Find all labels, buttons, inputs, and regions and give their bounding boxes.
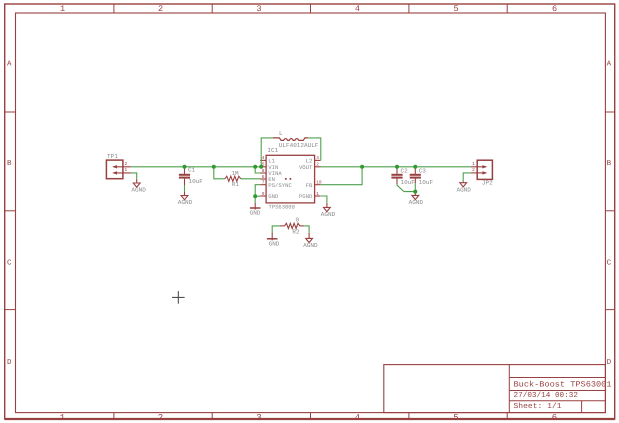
- svg-text:Buck-Boost TPS63001: Buck-Boost TPS63001: [514, 380, 612, 389]
- svg-text:10uF: 10uF: [419, 179, 434, 186]
- svg-text:C: C: [7, 258, 12, 267]
- svg-text:1: 1: [316, 192, 319, 197]
- svg-text:C1: C1: [188, 166, 196, 173]
- svg-text:R2: R2: [292, 228, 300, 235]
- svg-text:2: 2: [124, 161, 127, 167]
- svg-text:L: L: [279, 130, 283, 137]
- svg-text:3: 3: [256, 4, 261, 14]
- svg-text:C: C: [607, 258, 612, 267]
- svg-text:A: A: [7, 60, 12, 68]
- svg-text:4: 4: [262, 156, 265, 161]
- svg-text:1M: 1M: [231, 170, 239, 177]
- svg-text:6: 6: [552, 4, 557, 14]
- svg-text:R1: R1: [232, 181, 240, 188]
- svg-text:2: 2: [316, 162, 319, 168]
- svg-text:ULF4012AULF: ULF4012AULF: [279, 142, 319, 149]
- svg-text:1: 1: [60, 4, 65, 14]
- svg-text:4: 4: [355, 413, 360, 423]
- svg-text:AGND: AGND: [303, 242, 318, 249]
- svg-text:5: 5: [453, 413, 458, 423]
- svg-text:1: 1: [124, 168, 127, 173]
- svg-text:B: B: [607, 160, 612, 168]
- svg-text:9: 9: [262, 191, 265, 197]
- svg-text:AGND: AGND: [321, 211, 336, 218]
- svg-text:AGND: AGND: [178, 199, 193, 206]
- svg-text:D: D: [607, 359, 612, 367]
- svg-text:GND: GND: [250, 210, 261, 217]
- svg-text:0: 0: [295, 216, 299, 223]
- svg-text:GND: GND: [268, 193, 279, 200]
- svg-text:IC1: IC1: [267, 147, 278, 154]
- svg-text:C2: C2: [401, 167, 409, 174]
- svg-text:C3: C3: [419, 167, 427, 174]
- svg-text:TPS63000: TPS63000: [269, 203, 295, 210]
- svg-text:8: 8: [262, 168, 265, 174]
- svg-text:AGND: AGND: [131, 187, 146, 194]
- svg-text:10uF: 10uF: [189, 178, 204, 185]
- svg-text:PS/SYNC: PS/SYNC: [268, 182, 292, 189]
- svg-text:D: D: [7, 359, 12, 367]
- svg-text:VOUT: VOUT: [299, 164, 313, 171]
- svg-text:B: B: [7, 160, 12, 168]
- svg-text:27/03/14 00:32: 27/03/14 00:32: [514, 391, 579, 400]
- svg-text:FB: FB: [306, 182, 313, 189]
- svg-text:1: 1: [472, 162, 475, 167]
- svg-text:PGND: PGND: [299, 193, 313, 200]
- svg-text:10uF: 10uF: [401, 179, 416, 186]
- svg-text:3: 3: [316, 155, 319, 161]
- svg-text:4: 4: [355, 4, 360, 14]
- svg-text:JP2: JP2: [482, 179, 493, 186]
- svg-text:TP1: TP1: [107, 153, 118, 160]
- svg-text:1: 1: [60, 413, 65, 423]
- svg-text:6: 6: [262, 174, 265, 180]
- svg-text:A: A: [607, 60, 612, 68]
- svg-text:7: 7: [262, 181, 265, 186]
- svg-text:AGND: AGND: [409, 199, 424, 206]
- svg-text:GND: GND: [269, 240, 280, 247]
- svg-text:2: 2: [472, 167, 475, 173]
- svg-text:AGND: AGND: [456, 186, 471, 193]
- svg-text:5: 5: [453, 4, 458, 14]
- svg-text:2: 2: [158, 413, 163, 423]
- svg-text:3: 3: [256, 413, 261, 423]
- svg-text:6: 6: [552, 413, 557, 423]
- svg-text:Sheet: 1/1: Sheet: 1/1: [514, 402, 562, 411]
- svg-text:2: 2: [158, 4, 163, 14]
